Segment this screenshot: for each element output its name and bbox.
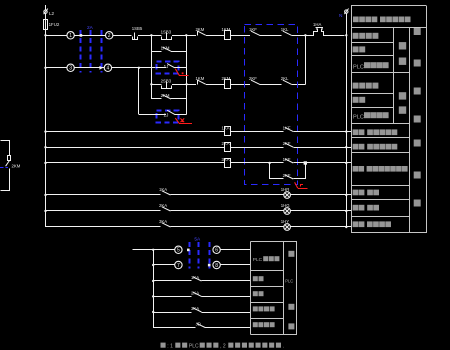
fuse 1FU2	[44, 20, 48, 30]
signal contact 2KA to PLC	[153, 296, 192, 298]
row: fa guan xinhao	[353, 205, 359, 211]
transformer screen 2A	[80, 30, 82, 73]
ladder right vertical	[186, 35, 188, 114]
svg-text:1HG: 1HG	[281, 203, 290, 208]
terminal 7	[153, 264, 175, 266]
node	[150, 83, 152, 85]
row: shoudong kongzhi 2	[353, 83, 359, 89]
svg-text:, 2: , 2	[220, 344, 226, 350]
signal rail 1HG	[46, 210, 161, 212]
svg-text:1KF: 1KF	[249, 27, 257, 32]
svg-text:5: 5	[177, 248, 180, 254]
svg-text:2KM: 2KM	[12, 164, 21, 169]
wire to row1 node	[291, 84, 305, 86]
svg-text:.: .	[283, 344, 284, 350]
blue dashed stub	[0, 167, 8, 169]
row: fa guan	[253, 291, 258, 296]
terminal 3	[67, 64, 74, 71]
table frame	[351, 6, 353, 233]
terminal 5	[175, 246, 182, 253]
signal contact 3KA to PLC	[153, 312, 192, 314]
svg-text:1KM: 1KM	[196, 76, 205, 81]
neutral bus N	[346, 13, 348, 227]
svg-text:4: 4	[107, 66, 110, 72]
PLC relay box 1J	[157, 62, 179, 74]
svg-text:N: N	[339, 13, 343, 19]
limit switch box 2KM (cut off at edge)	[1, 141, 10, 156]
svg-text:1SB5: 1SB5	[132, 26, 143, 31]
svg-text:2KA: 2KA	[222, 141, 230, 146]
wire	[74, 67, 104, 69]
svg-text:PLC: PLC	[285, 278, 293, 283]
PLC interface boundary box	[245, 25, 298, 185]
row: fa guo li jv	[253, 306, 258, 311]
terminal 4	[104, 64, 111, 71]
branch vertical	[151, 35, 153, 99]
disconnect switch L2	[45, 5, 47, 10]
node after 1SB5	[150, 34, 152, 36]
svg-text:1FU2: 1FU2	[49, 22, 60, 27]
svg-text:1KL: 1KL	[281, 27, 289, 32]
wire	[172, 35, 196, 37]
svg-text:3: 3	[69, 66, 72, 72]
row: shoudong kongzhi	[353, 33, 359, 39]
table row lines	[351, 27, 426, 29]
wire	[220, 264, 250, 266]
left control bus L	[45, 30, 47, 227]
svg-text:PLC: PLC	[189, 344, 199, 350]
wire	[151, 35, 161, 37]
svg-text:2KF: 2KF	[249, 76, 257, 81]
middle col group2: guan fa	[399, 92, 406, 99]
svg-text:PLC: PLC	[353, 64, 364, 70]
middle col group1: kai fa	[399, 42, 406, 49]
svg-text:PLC: PLC	[253, 257, 263, 263]
row: dianqi guzhang	[253, 322, 258, 327]
wire	[206, 35, 224, 37]
PLC relay box 2J	[157, 111, 179, 123]
bypass loop contact 2KF	[268, 162, 270, 164]
relay rail 2KA	[46, 147, 225, 149]
row: fa guan zhongjian jidianqi	[353, 144, 359, 150]
red mark	[180, 118, 184, 122]
row: fa kai	[253, 276, 258, 281]
svg-text:2A: 2A	[87, 25, 94, 31]
terminal N	[345, 10, 348, 13]
wire	[220, 249, 250, 251]
terminal 6	[213, 246, 220, 253]
red revision mark	[175, 118, 179, 124]
row: zisuo	[353, 46, 359, 52]
svg-text:2KM: 2KM	[196, 27, 205, 32]
svg-text:8: 8	[215, 263, 218, 269]
signal rail 1HR	[46, 194, 161, 196]
red revision mark	[295, 182, 298, 188]
svg-text:: 1: : 1	[167, 344, 173, 350]
wire	[230, 84, 250, 86]
svg-text:1KM: 1KM	[222, 27, 231, 32]
terminal 2	[106, 32, 113, 39]
svg-text:1HY: 1HY	[281, 219, 289, 224]
wire	[45, 13, 47, 19]
relay rail 1KA	[46, 131, 225, 133]
feed vertical to 2J	[138, 68, 140, 115]
wire	[113, 35, 132, 37]
bottom bus	[153, 250, 155, 328]
svg-text:2KL: 2KL	[281, 76, 289, 81]
signal contact 1KA to PLC	[153, 280, 192, 282]
svg-text:1J: 1J	[164, 64, 169, 69]
fault contact JD	[153, 327, 195, 329]
wire	[230, 35, 250, 37]
wire	[206, 84, 224, 86]
svg-text:2: 2	[108, 33, 111, 39]
svg-text:5A: 5A	[194, 236, 201, 242]
wire	[46, 35, 67, 37]
svg-text:PLC: PLC	[353, 114, 364, 120]
wire	[260, 35, 282, 37]
row: zisuo 2	[353, 97, 359, 103]
wire	[291, 35, 313, 37]
row: fa guo lijv xinhao	[353, 221, 359, 227]
row: fa kai xinhao	[353, 190, 359, 196]
wire	[46, 67, 67, 69]
row: fa guo lijv zhongjian jidianqi	[353, 166, 359, 172]
terminal 8	[213, 261, 220, 268]
bottom table frame	[250, 241, 252, 334]
red revision mark	[175, 69, 179, 76]
row: fa kai zhongjian jidianqi	[353, 129, 359, 135]
svg-text:7: 7	[177, 263, 180, 269]
right col: zhi PLC xin hao	[288, 251, 294, 257]
svg-text:3KA: 3KA	[222, 157, 230, 162]
relay rail 3KA	[46, 162, 225, 164]
svg-text:L2: L2	[49, 11, 55, 16]
svg-text:1HR: 1HR	[281, 187, 290, 192]
svg-text:2KM: 2KM	[222, 76, 231, 81]
svg-text:6: 6	[215, 248, 218, 254]
row: PLC supply stub	[132, 249, 174, 251]
wire	[260, 84, 282, 86]
wire to 1J	[112, 67, 156, 69]
svg-text:1HA: 1HA	[313, 22, 321, 27]
node at N bus	[345, 34, 347, 36]
caption note	[161, 343, 166, 348]
terminal 1	[67, 32, 74, 39]
right col vertical: dian dong fa kong zhi hui lu	[414, 28, 421, 35]
signal rail 1HY	[46, 226, 161, 228]
svg-text:1: 1	[69, 33, 72, 39]
table header: kongzhi dianyuan ji xinhao bufen	[353, 17, 359, 23]
wire	[74, 35, 105, 37]
transformer screen 5A	[189, 242, 191, 269]
